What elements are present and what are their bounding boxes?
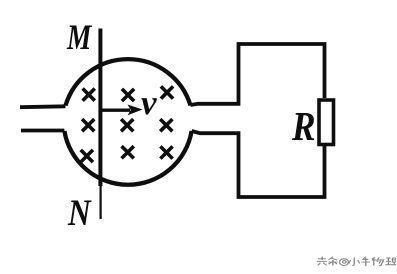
field cross row2 col2 [121, 119, 133, 131]
boundary line MN lower thin part [99, 186, 101, 219]
char 物 [372, 257, 384, 265]
char 条 [328, 257, 337, 266]
field cross row1 col2 [122, 89, 134, 101]
field symbols x (B into page), 3x3 grid [81, 86, 173, 162]
watermark 头条@小牛物理 [316, 256, 396, 267]
wire: right bottom lead to external circuit [192, 131, 325, 197]
wire: left bottom lead [21, 129, 64, 133]
field cross row3 col1 [81, 150, 93, 162]
boundary line MN [98, 29, 102, 187]
label v [141, 83, 157, 123]
char 头 [317, 257, 327, 266]
field cross row2 col1 [82, 119, 94, 131]
loop lower arc [64, 131, 191, 185]
velocity arrow v [102, 105, 143, 116]
field cross row1 col1 [83, 89, 95, 101]
field cross row2 col3 [160, 119, 172, 131]
char 牛 [361, 257, 370, 266]
resistor R [319, 100, 334, 145]
field cross row3 col3 [160, 146, 172, 158]
label M [67, 16, 91, 58]
field cross row3 col2 [122, 146, 134, 158]
wire: left top lead [20, 104, 66, 109]
label N [68, 192, 91, 235]
label R [292, 102, 316, 150]
loop upper arc [66, 59, 191, 105]
field cross row1 col3 [161, 86, 173, 98]
wire: right top lead to external circuit [191, 44, 325, 105]
char 理 [385, 258, 396, 265]
char 小 [349, 257, 360, 265]
char @ [340, 259, 349, 266]
